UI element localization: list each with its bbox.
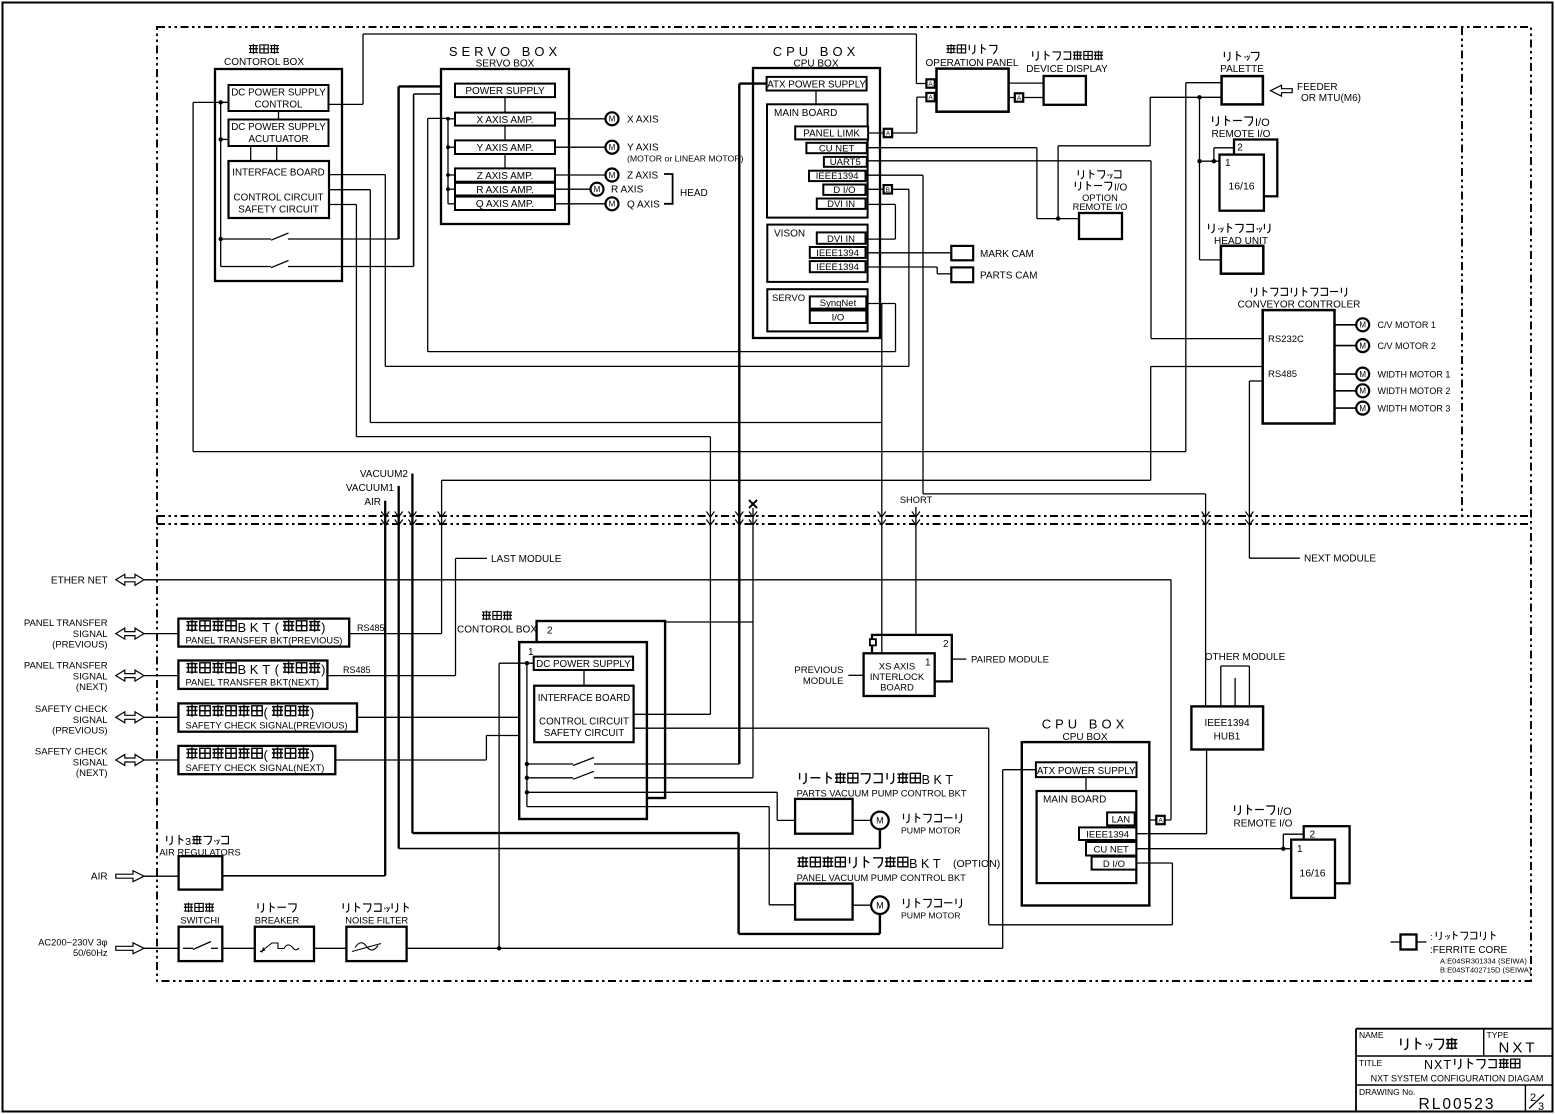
- svg-text:CONTOROL BOX: CONTOROL BOX: [224, 57, 304, 68]
- svg-text:PARTS VACUUM PUMP CONTROL BKT: PARTS VACUUM PUMP CONTROL BKT: [797, 789, 967, 799]
- svg-text:NXT SYSTEM CONFIGURATION DIAGA: NXT SYSTEM CONFIGURATION DIAGAM: [1371, 1074, 1544, 1084]
- svg-text:DC POWER SUPPLY: DC POWER SUPPLY: [536, 659, 631, 670]
- svg-text:M: M: [609, 115, 616, 124]
- svg-text:PUMP MOTOR: PUMP MOTOR: [901, 826, 961, 836]
- svg-text:RS485: RS485: [357, 623, 385, 633]
- svg-text:SIGNAL: SIGNAL: [73, 715, 108, 726]
- svg-text:CONTROL CIRCUIT: CONTROL CIRCUIT: [539, 717, 629, 728]
- svg-text:M: M: [594, 185, 601, 194]
- svg-text:T: T: [933, 857, 941, 871]
- svg-text:CONVEYOR CONTROLER: CONVEYOR CONTROLER: [1238, 300, 1361, 311]
- svg-text:VACUUM1: VACUUM1: [346, 483, 395, 494]
- svg-text:Z AXIS AMP.: Z AXIS AMP.: [477, 171, 534, 182]
- svg-text:VACUUM2: VACUUM2: [360, 469, 409, 480]
- svg-text:X AXIS AMP.: X AXIS AMP.: [476, 115, 533, 126]
- svg-text:3: 3: [1538, 1101, 1544, 1113]
- svg-text:AIR: AIR: [91, 872, 108, 883]
- svg-text:Y AXIS: Y AXIS: [627, 143, 659, 154]
- svg-text:): ): [310, 705, 314, 720]
- svg-text:NOISE FILTER: NOISE FILTER: [345, 916, 408, 926]
- svg-text:I/O: I/O: [1114, 183, 1128, 194]
- svg-text:): ): [321, 620, 325, 635]
- svg-text:M: M: [609, 171, 616, 180]
- svg-text:DC POWER SUPPLY: DC POWER SUPPLY: [231, 122, 326, 133]
- svg-text:Q AXIS AMP.: Q AXIS AMP.: [476, 199, 534, 210]
- svg-text:): ): [310, 748, 314, 763]
- svg-text:M: M: [1359, 404, 1366, 413]
- svg-text:M: M: [609, 200, 616, 209]
- svg-text:IEEE1394: IEEE1394: [816, 262, 859, 273]
- svg-text:DRAWING No.: DRAWING No.: [1359, 1087, 1415, 1097]
- svg-text:SynqNet: SynqNet: [820, 298, 857, 309]
- svg-text:(MOTOR or LINEAR MOTOR): (MOTOR or LINEAR MOTOR): [627, 154, 744, 164]
- svg-text:PANEL TRANSFER BKT(NEXT): PANEL TRANSFER BKT(NEXT): [186, 678, 320, 688]
- svg-text:XS AXIS: XS AXIS: [879, 662, 915, 673]
- svg-text:CU NET: CU NET: [819, 143, 855, 154]
- svg-text:MAIN BOARD: MAIN BOARD: [1043, 795, 1106, 806]
- svg-text:TITLE: TITLE: [1359, 1058, 1382, 1068]
- svg-text:ATX POWER SUPPLY: ATX POWER SUPPLY: [767, 79, 866, 90]
- svg-text:ETHER NET: ETHER NET: [51, 575, 108, 586]
- svg-text:): ): [321, 662, 325, 677]
- svg-text:NXT: NXT: [1499, 1040, 1538, 1057]
- svg-text:PANEL LIMK: PANEL LIMK: [803, 129, 860, 140]
- svg-text:1: 1: [925, 658, 931, 669]
- svg-text:50/60Hz: 50/60Hz: [73, 948, 108, 958]
- svg-text:2: 2: [547, 626, 553, 637]
- svg-text:DVI IN: DVI IN: [827, 234, 855, 245]
- svg-text:K: K: [250, 662, 259, 677]
- svg-text:DVI IN: DVI IN: [827, 199, 855, 210]
- svg-text:INTERFACE BOARD: INTERFACE BOARD: [232, 168, 325, 179]
- svg-text:M: M: [1359, 370, 1366, 379]
- svg-text:(: (: [264, 705, 269, 720]
- svg-text:OR MTU(M6): OR MTU(M6): [1301, 93, 1361, 104]
- svg-text:B: B: [886, 187, 890, 194]
- svg-text:WIDTH MOTOR 3: WIDTH MOTOR 3: [1378, 404, 1451, 414]
- svg-text:PANEL TRANSFER BKT(PREVIOUS): PANEL TRANSFER BKT(PREVIOUS): [186, 636, 343, 646]
- svg-text:B:E04ST402715D (SEIWA): B:E04ST402715D (SEIWA): [1440, 966, 1532, 975]
- svg-text:Q AXIS: Q AXIS: [627, 199, 660, 210]
- svg-text:DC POWER SUPPLY: DC POWER SUPPLY: [231, 88, 326, 99]
- svg-text:M: M: [876, 816, 884, 826]
- svg-text:(: (: [264, 748, 269, 763]
- svg-text:PARTS CAM: PARTS CAM: [980, 271, 1037, 282]
- svg-text:PAIRED MODULE: PAIRED MODULE: [971, 655, 1049, 666]
- svg-text:SWITCHI: SWITCHI: [180, 916, 219, 926]
- svg-text:CPU BOX: CPU BOX: [1042, 717, 1129, 732]
- svg-text:SERVO BOX: SERVO BOX: [449, 44, 561, 59]
- svg-text:REMOTE I/O: REMOTE I/O: [1234, 819, 1293, 830]
- svg-text:2: 2: [1237, 143, 1243, 154]
- svg-text:A: A: [886, 131, 891, 138]
- svg-text:VISON: VISON: [774, 229, 805, 240]
- svg-text:X AXIS: X AXIS: [627, 114, 659, 125]
- svg-text:RS485: RS485: [1268, 369, 1297, 380]
- svg-text:A:E04SR301334 (SEIWA): A:E04SR301334 (SEIWA): [1440, 957, 1527, 966]
- svg-text:SHORT: SHORT: [900, 495, 933, 505]
- svg-text:(NEXT): (NEXT): [76, 768, 108, 779]
- svg-text:HEAD: HEAD: [680, 188, 708, 199]
- svg-text:LAN: LAN: [1112, 815, 1131, 826]
- svg-text:A: A: [1017, 95, 1022, 102]
- svg-text:UART5: UART5: [830, 157, 861, 168]
- svg-text:PANEL TRANSFER: PANEL TRANSFER: [24, 660, 108, 671]
- svg-text:POWER SUPPLY: POWER SUPPLY: [465, 86, 545, 97]
- svg-text:SERVO: SERVO: [772, 293, 805, 304]
- svg-text:MARK CAM: MARK CAM: [980, 249, 1034, 260]
- svg-text:M: M: [1359, 321, 1366, 330]
- svg-text:INTERLOCK: INTERLOCK: [870, 672, 925, 683]
- svg-text:AIR: AIR: [364, 497, 381, 508]
- svg-text:SAFETY CIRCUIT: SAFETY CIRCUIT: [544, 728, 624, 739]
- svg-text:B: B: [238, 662, 247, 677]
- svg-text:RS232C: RS232C: [1268, 334, 1304, 345]
- svg-text:PUMP MOTOR: PUMP MOTOR: [901, 911, 961, 921]
- svg-text:3: 3: [185, 836, 191, 848]
- svg-text:TYPE: TYPE: [1487, 1030, 1510, 1040]
- svg-text:PANEL VACUUM PUMP CONTROL BKT: PANEL VACUUM PUMP CONTROL BKT: [797, 873, 967, 883]
- svg-text:FEEDER: FEEDER: [1297, 82, 1338, 93]
- svg-text:R AXIS: R AXIS: [611, 185, 644, 196]
- svg-text:OTHER MODULE: OTHER MODULE: [1205, 652, 1286, 663]
- svg-text:NAME: NAME: [1359, 1030, 1384, 1040]
- svg-text:2: 2: [943, 639, 949, 650]
- svg-text:T: T: [262, 620, 270, 635]
- svg-text:IEEE1394: IEEE1394: [816, 171, 859, 182]
- svg-text:B: B: [922, 773, 930, 787]
- svg-text:MODULE: MODULE: [803, 676, 844, 687]
- svg-text:(OPTION): (OPTION): [953, 858, 1000, 870]
- svg-text:16/16: 16/16: [1228, 181, 1254, 193]
- svg-text:SAFETY CHECK: SAFETY CHECK: [35, 704, 108, 715]
- svg-text:AC200~230V 3φ: AC200~230V 3φ: [38, 937, 107, 947]
- svg-text:T: T: [262, 662, 270, 677]
- svg-text:B: B: [238, 620, 247, 635]
- svg-text:SIGNAL: SIGNAL: [73, 758, 108, 769]
- svg-text:PREVIOUS: PREVIOUS: [794, 665, 843, 676]
- svg-text:BOARD: BOARD: [880, 683, 914, 694]
- svg-text:SIGNAL: SIGNAL: [73, 671, 108, 682]
- svg-text:INTERFACE BOARD: INTERFACE BOARD: [538, 693, 631, 704]
- svg-text:M: M: [876, 900, 884, 910]
- svg-text:IEEE1394: IEEE1394: [1086, 830, 1129, 841]
- svg-text:I/O: I/O: [1255, 117, 1270, 129]
- svg-text:D I/O: D I/O: [833, 185, 855, 196]
- svg-text:D I/O: D I/O: [1103, 859, 1125, 870]
- svg-text:ATX POWER SUPPLY: ATX POWER SUPPLY: [1037, 766, 1136, 777]
- svg-text:DEVICE DISPLAY: DEVICE DISPLAY: [1026, 64, 1108, 75]
- svg-text:SAFETY CHECK SIGNAL(PREVIOUS): SAFETY CHECK SIGNAL(PREVIOUS): [186, 721, 348, 731]
- svg-text:SAFETY CHECK SIGNAL(NEXT): SAFETY CHECK SIGNAL(NEXT): [186, 763, 325, 773]
- svg-text:SAFETY CIRCUIT: SAFETY CIRCUIT: [238, 205, 318, 216]
- svg-text:M: M: [1359, 342, 1366, 351]
- svg-text:(: (: [275, 662, 280, 677]
- svg-text:1: 1: [1225, 158, 1231, 169]
- svg-text:B: B: [909, 857, 917, 871]
- svg-text:IEEE1394: IEEE1394: [1204, 718, 1249, 729]
- svg-text:NXT: NXT: [1424, 1058, 1452, 1072]
- svg-text:BREAKER: BREAKER: [255, 916, 300, 926]
- svg-text:SAFETY CHECK: SAFETY CHECK: [35, 747, 108, 758]
- svg-text:A: A: [1158, 818, 1163, 825]
- svg-text:CPU BOX: CPU BOX: [773, 44, 860, 59]
- svg-text:ACUTUATOR: ACUTUATOR: [248, 134, 308, 145]
- svg-text:RL00523: RL00523: [1419, 1096, 1496, 1113]
- svg-text:(PREVIOUS): (PREVIOUS): [52, 726, 107, 737]
- svg-text::FERRITE CORE: :FERRITE CORE: [1430, 945, 1508, 956]
- svg-text:(: (: [275, 620, 280, 635]
- svg-text:(NEXT): (NEXT): [76, 682, 108, 693]
- svg-text:PALETTE: PALETTE: [1220, 64, 1264, 75]
- svg-text:CONTROL: CONTROL: [255, 100, 303, 111]
- svg-text:WIDTH MOTOR 2: WIDTH MOTOR 2: [1378, 386, 1451, 396]
- svg-text:Y AXIS AMP.: Y AXIS AMP.: [477, 143, 534, 154]
- svg-text:LAST MODULE: LAST MODULE: [491, 554, 562, 565]
- svg-text:K: K: [250, 620, 259, 635]
- svg-text:A: A: [928, 81, 933, 88]
- svg-text:CONTROL CIRCUIT: CONTROL CIRCUIT: [234, 193, 324, 204]
- svg-text:C/V MOTOR 1: C/V MOTOR 1: [1378, 320, 1436, 330]
- svg-text:(PREVIOUS): (PREVIOUS): [52, 640, 107, 651]
- svg-text:SIGNAL: SIGNAL: [73, 629, 108, 640]
- svg-text:PANEL TRANSFER: PANEL TRANSFER: [24, 618, 108, 629]
- svg-text::: :: [1430, 932, 1433, 943]
- svg-text:C/V MOTOR 2: C/V MOTOR 2: [1378, 341, 1436, 351]
- svg-text:IEEE1394: IEEE1394: [816, 248, 859, 259]
- svg-text:K: K: [934, 773, 943, 787]
- svg-text:I/O: I/O: [1277, 806, 1292, 818]
- svg-text:REMOTE I/O: REMOTE I/O: [1073, 202, 1128, 212]
- svg-text:M: M: [1359, 387, 1366, 396]
- svg-text:T: T: [945, 773, 953, 787]
- svg-text:CU NET: CU NET: [1094, 845, 1130, 856]
- svg-text:CONTOROL BOX: CONTOROL BOX: [457, 625, 537, 636]
- svg-text:1: 1: [1297, 844, 1303, 855]
- svg-text:K: K: [921, 857, 930, 871]
- svg-text:A: A: [928, 95, 933, 102]
- svg-text:Z AXIS: Z AXIS: [627, 171, 658, 182]
- svg-text:NEXT MODULE: NEXT MODULE: [1304, 554, 1376, 565]
- svg-text:R AXIS AMP.: R AXIS AMP.: [476, 185, 534, 196]
- svg-text:16/16: 16/16: [1299, 868, 1325, 880]
- svg-text:WIDTH MOTOR 1: WIDTH MOTOR 1: [1378, 370, 1451, 380]
- svg-text:HUB1: HUB1: [1214, 732, 1241, 743]
- svg-text:RS485: RS485: [343, 665, 371, 675]
- svg-text:I/O: I/O: [832, 312, 845, 323]
- svg-text:MAIN BOARD: MAIN BOARD: [774, 108, 837, 119]
- svg-text:M: M: [609, 143, 616, 152]
